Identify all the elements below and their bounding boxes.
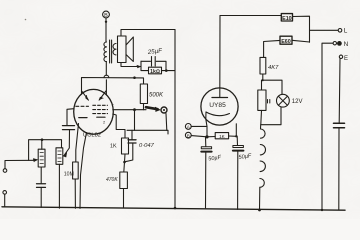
resistor 470K bbox=[106, 172, 127, 189]
junction bbox=[133, 108, 136, 111]
wire bbox=[41, 140, 43, 150]
wire bbox=[123, 189, 125, 208]
wire (pentode cathode) bbox=[113, 114, 125, 138]
wire bbox=[121, 30, 175, 37]
svg-text:E10: E10 bbox=[282, 16, 292, 22]
resistor E60 (fuse dropper) bbox=[280, 36, 292, 45]
junction bbox=[133, 76, 136, 79]
terminal input 1 bbox=[3, 169, 7, 173]
svg-text:1K: 1K bbox=[110, 144, 117, 150]
wire bbox=[338, 128, 340, 210]
svg-text:E60: E60 bbox=[281, 39, 291, 45]
svg-text:L: L bbox=[344, 28, 348, 35]
wire bbox=[123, 162, 126, 172]
terminal E bbox=[339, 55, 348, 62]
node A (pointer to rectifier output) bbox=[146, 107, 167, 113]
resistor 1K (cathode) bbox=[110, 138, 129, 154]
wire (chassis return vertical) bbox=[174, 30, 176, 209]
junction bbox=[41, 138, 44, 141]
junction bbox=[137, 65, 142, 68]
svg-text:E: E bbox=[344, 56, 348, 62]
wire bbox=[29, 140, 62, 161]
resistor (heater section, ditto value) bbox=[258, 90, 270, 110]
wire bbox=[229, 124, 237, 137]
wire (grid line) bbox=[113, 109, 146, 111]
wire bbox=[80, 133, 87, 209]
svg-text:470K: 470K bbox=[106, 177, 118, 183]
junction (rail) bbox=[174, 207, 177, 210]
ground rail bbox=[2, 207, 345, 210]
wire bbox=[165, 114, 168, 131]
svg-text:2: 2 bbox=[103, 120, 106, 125]
wire bbox=[191, 126, 207, 136]
junction bbox=[235, 135, 237, 137]
wire bbox=[105, 18, 107, 42]
junction (rail) bbox=[321, 209, 323, 211]
capacitor 50uF (second) bbox=[233, 136, 252, 209]
wire bbox=[162, 70, 176, 72]
terminal N bbox=[333, 41, 349, 48]
wire bbox=[263, 74, 282, 94]
svg-text:N: N bbox=[344, 41, 349, 48]
capacitor 50uF (first) bbox=[201, 137, 222, 208]
speaker LS1 bbox=[118, 36, 134, 63]
svg-text:UY85: UY85 bbox=[209, 102, 226, 109]
wire (to L) bbox=[310, 29, 339, 31]
capacitor 0.047 bbox=[125, 130, 155, 161]
node B (heater tap) bbox=[185, 132, 191, 138]
capacitor (VR1 foot) bbox=[37, 184, 46, 188]
wire bbox=[293, 16, 310, 42]
wire bbox=[260, 125, 262, 129]
wire bbox=[74, 179, 76, 208]
svg-text:12V: 12V bbox=[292, 99, 303, 105]
terminal L bbox=[338, 28, 348, 35]
wire bbox=[141, 61, 149, 70]
svg-text:0·047: 0·047 bbox=[139, 143, 155, 149]
node A (rectifier output) bbox=[185, 124, 191, 130]
potentiometer VR1 bbox=[38, 149, 45, 167]
wire bbox=[261, 107, 281, 125]
svg-text:10M: 10M bbox=[64, 172, 74, 178]
capacitor (earth line) bbox=[334, 123, 345, 128]
wire bbox=[127, 130, 168, 134]
svg-text:500K: 500K bbox=[149, 93, 164, 99]
junction bbox=[205, 135, 208, 138]
svg-text:1kΩ: 1kΩ bbox=[150, 69, 160, 75]
wire bbox=[261, 80, 263, 90]
wire bbox=[191, 136, 207, 137]
svg-text:4K7: 4K7 bbox=[268, 65, 279, 71]
tube V1 UCL82 bbox=[74, 89, 114, 138]
wire bbox=[121, 63, 141, 67]
svg-text:50µF: 50µF bbox=[208, 155, 222, 163]
wire bbox=[259, 187, 261, 210]
resistor 1K (surge) bbox=[215, 133, 228, 139]
junction (rail) bbox=[258, 209, 261, 212]
svg-text:B: B bbox=[187, 133, 190, 138]
tube V2 UY85 bbox=[201, 16, 238, 127]
wire (triode anode to 500K) bbox=[82, 78, 144, 95]
lamp 12V bbox=[277, 94, 303, 107]
wire (wiper stub) bbox=[63, 152, 67, 157]
wire bbox=[4, 194, 6, 207]
wire bbox=[264, 40, 280, 57]
wire bbox=[143, 104, 145, 110]
wire bbox=[40, 187, 42, 207]
resistor 10M bbox=[64, 162, 78, 179]
svg-text:7: 7 bbox=[112, 103, 115, 108]
potentiometer VR2 bbox=[56, 148, 63, 165]
wire (N lead) bbox=[322, 43, 333, 210]
wire bbox=[124, 154, 127, 162]
paper speck bbox=[25, 19, 27, 21]
wire bbox=[65, 130, 70, 155]
wire bbox=[58, 164, 60, 208]
resistor 500K bbox=[140, 84, 164, 104]
junction bbox=[262, 79, 264, 81]
node B bbox=[103, 11, 110, 23]
wire bbox=[5, 160, 36, 168]
wire (pentode anode, hop over) bbox=[104, 62, 109, 95]
terminal input 2 bbox=[3, 191, 7, 195]
wire bbox=[207, 136, 215, 138]
wire bbox=[292, 40, 310, 42]
wire bbox=[338, 59, 341, 124]
transformer T1 secondary bbox=[113, 44, 116, 55]
wire bbox=[40, 167, 42, 184]
junction bbox=[123, 161, 126, 164]
wire (HT top rail) bbox=[220, 15, 281, 17]
svg-text:1K: 1K bbox=[219, 134, 226, 139]
transformer T1 primary bbox=[104, 42, 107, 62]
capacitor 25uF bbox=[141, 47, 166, 70]
resistor 1k (speaker network) bbox=[149, 67, 162, 75]
wire (triode grid) bbox=[67, 109, 74, 125]
wire (triode cathode to 10M) bbox=[76, 124, 79, 163]
svg-text:50µF: 50µF bbox=[238, 153, 252, 161]
resistor E10 (fuse dropper) bbox=[281, 14, 292, 22]
svg-text:25µF: 25µF bbox=[146, 47, 163, 56]
inductor (heater chain) bbox=[260, 129, 266, 187]
resistor 4K7 bbox=[260, 57, 279, 74]
transformer T1 core bbox=[109, 40, 111, 63]
capacitor (input coupling) bbox=[63, 126, 75, 130]
junction bbox=[165, 69, 168, 72]
wire bbox=[134, 110, 136, 131]
